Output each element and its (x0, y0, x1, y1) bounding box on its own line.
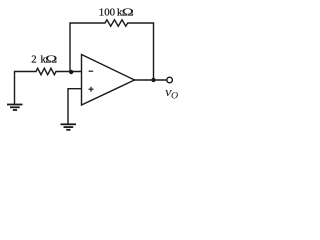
svg-text:2: 2 (31, 54, 36, 66)
svg-text:Ω: Ω (122, 6, 134, 18)
svg-text:O: O (171, 91, 178, 102)
svg-text:100: 100 (99, 7, 115, 19)
svg-text:Ω: Ω (45, 53, 57, 65)
